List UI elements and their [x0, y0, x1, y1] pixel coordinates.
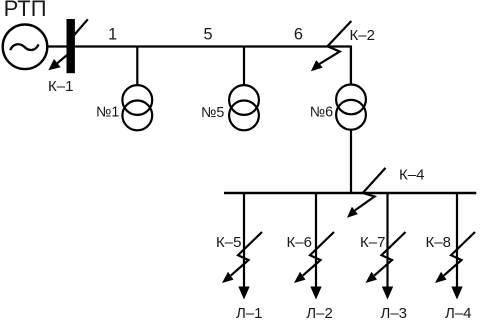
svg-text:Л–1: Л–1 [236, 305, 263, 322]
svg-text:6: 6 [294, 26, 303, 44]
fault arrow К-5 [222, 232, 262, 283]
wire bus [224, 192, 476, 194]
fault arrow К-1 lower segment [48, 53, 69, 70]
fault bar К-1 [67, 19, 75, 73]
svg-text:РТП: РТП [4, 0, 47, 21]
wire drop to №1 [136, 47, 138, 86]
wire drop line Л-2 [310, 193, 321, 300]
fault arrow К-2 [311, 21, 351, 71]
svg-text:К–4: К–4 [399, 167, 424, 184]
wire №6 to bus [350, 130, 352, 193]
wire drop to №5 [243, 47, 245, 86]
svg-text:№5: №5 [201, 105, 224, 121]
wire drop line Л-3 [382, 193, 393, 300]
svg-text:№1: №1 [96, 105, 119, 121]
svg-text:Л–4: Л–4 [445, 305, 472, 322]
source G1 sine wave [10, 44, 38, 50]
transformer №6 [336, 85, 366, 130]
wire drop line Л-4 [451, 193, 462, 300]
svg-text:Л–2: Л–2 [306, 305, 333, 322]
fault arrow К-6 [294, 232, 334, 283]
wire drop line Л-1 [238, 193, 249, 300]
svg-text:К–2: К–2 [350, 27, 375, 44]
fault arrow К-4 [347, 168, 386, 218]
svg-text:№6: №6 [310, 105, 333, 121]
svg-text:Л–3: Л–3 [381, 305, 408, 322]
source G1 circle [3, 25, 48, 70]
svg-text:К–8: К–8 [426, 234, 451, 251]
fault arrow К-7 [366, 232, 406, 283]
transformer №1 [122, 85, 152, 130]
fault arrow К-8 [435, 232, 475, 283]
wire feeder with corner to №6 [47, 47, 351, 86]
svg-text:К–6: К–6 [287, 234, 312, 251]
svg-text:5: 5 [203, 26, 212, 44]
svg-text:К–5: К–5 [216, 234, 241, 251]
transformer №5 [229, 85, 259, 130]
fault arrow К-1 upper segment [72, 19, 88, 37]
svg-text:К–7: К–7 [360, 234, 385, 251]
svg-text:1: 1 [108, 26, 117, 44]
svg-text:К–1: К–1 [48, 78, 73, 95]
